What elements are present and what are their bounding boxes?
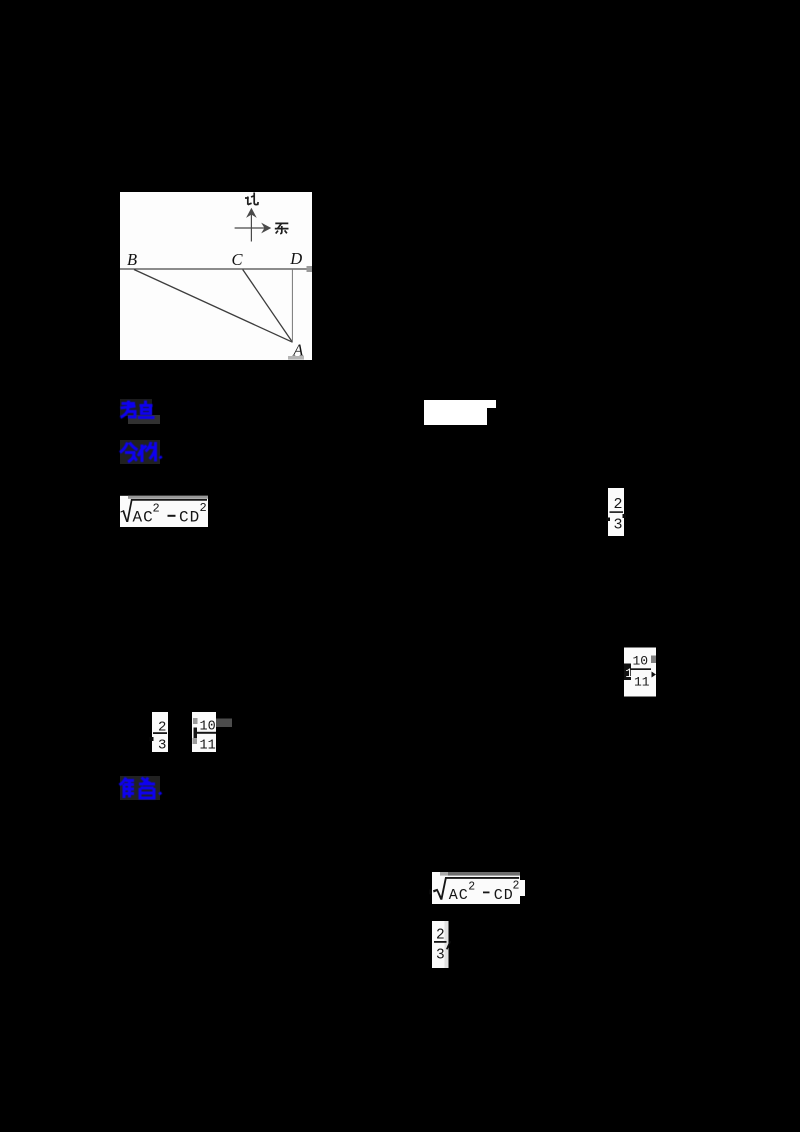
svg-text:D: D — [289, 249, 302, 268]
blue label 分析: — [114, 436, 166, 468]
white redaction L-shaped box — [424, 399, 496, 425]
svg-text:11: 11 — [200, 739, 216, 754]
svg-text:C: C — [232, 250, 244, 269]
svg-text:3: 3 — [158, 738, 166, 754]
svg-text:2: 2 — [468, 881, 475, 894]
mixed number 1 10/11 (right column) — [624, 647, 656, 697]
svg-text:B: B — [127, 250, 137, 269]
svg-text:3: 3 — [436, 948, 445, 964]
svg-text:3: 3 — [614, 517, 623, 534]
fraction 2/3 #1 (right column) — [604, 487, 628, 539]
compass north label 北 — [245, 193, 258, 205]
svg-text:11: 11 — [634, 675, 650, 690]
svg-text:A: A — [292, 341, 304, 360]
line D to A (vertical) — [291, 269, 293, 342]
fraction 2/3 #3 (bottom) — [430, 920, 454, 969]
svg-text:2: 2 — [153, 502, 160, 516]
svg-text:AC: AC — [133, 509, 154, 527]
formula sqrt(AC^2-CD^2) #1 — [120, 495, 209, 528]
svg-text:2: 2 — [200, 501, 207, 515]
gray nub at right end of road — [307, 266, 313, 272]
svg-text:CD: CD — [494, 887, 514, 904]
svg-text:CD: CD — [179, 509, 200, 527]
svg-text:2: 2 — [513, 880, 520, 893]
mixed number 1 10/11 #2 (in text row) — [192, 711, 234, 753]
line B-C-D (east-west road) — [120, 268, 312, 270]
geometry figure panel — [120, 192, 312, 360]
line C to A — [243, 270, 293, 343]
svg-text:10: 10 — [633, 654, 649, 669]
formula sqrt(AC^2-CD^2) #2 (bottom) — [429, 871, 527, 905]
compass east label 东 — [275, 223, 289, 233]
blue label 解答: — [114, 772, 166, 804]
line B to A — [134, 270, 293, 343]
compass cross with arrows — [235, 209, 270, 242]
svg-text:AC: AC — [449, 887, 469, 904]
svg-text:2: 2 — [614, 496, 623, 513]
gray strip under label A — [288, 356, 304, 360]
fraction 2/3 #2 (in text row) — [148, 711, 170, 753]
blue label 考点: — [114, 396, 166, 426]
